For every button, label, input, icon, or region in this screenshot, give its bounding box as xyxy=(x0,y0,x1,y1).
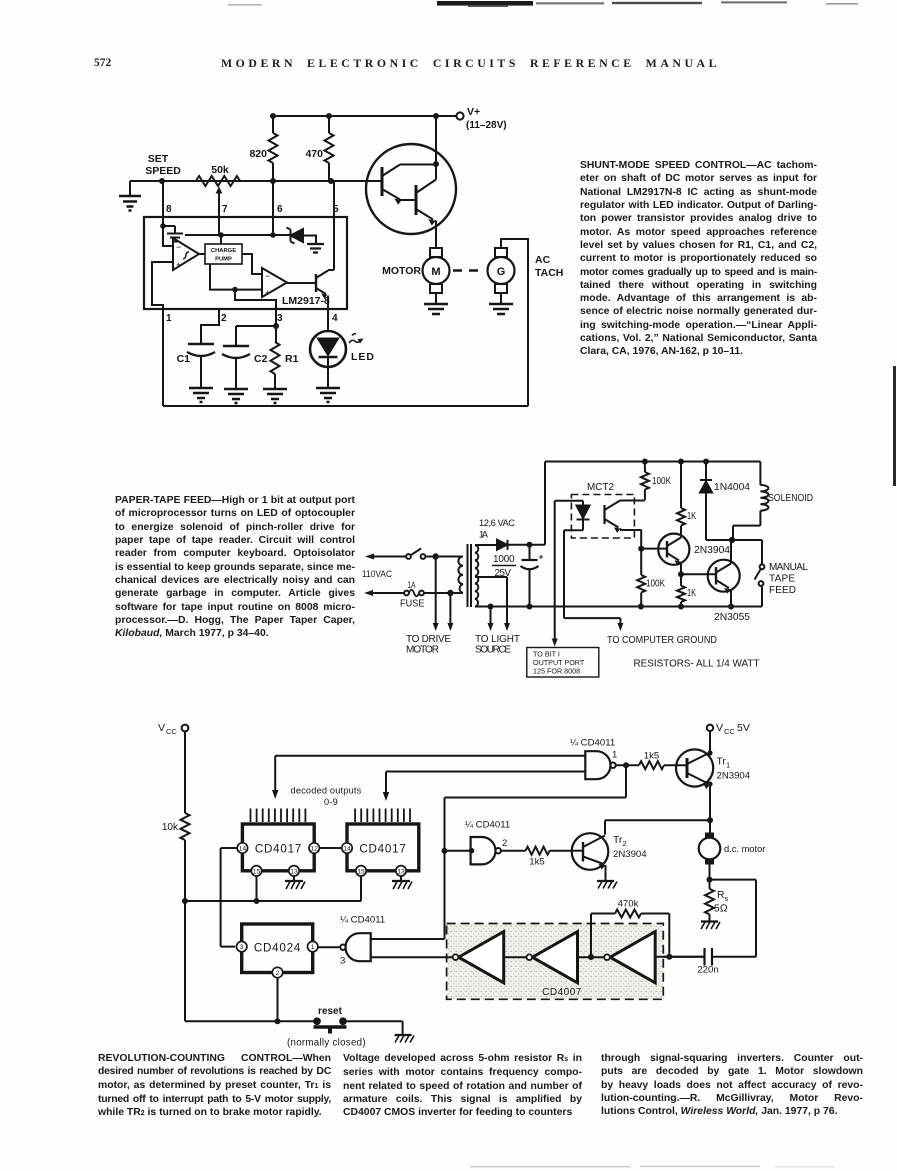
NAND gate 2 (1/4 CD4011) xyxy=(465,820,510,865)
capacitor 220n xyxy=(697,948,718,976)
wire gate1 output xyxy=(616,764,639,766)
svg-text:1A: 1A xyxy=(408,580,416,591)
wire decoded output line A xyxy=(272,756,585,799)
motor M xyxy=(423,248,450,304)
node dots reset bus xyxy=(182,898,260,904)
node dot collector xyxy=(433,161,439,167)
svg-text:s: s xyxy=(725,894,729,903)
svg-text:FEED: FEED xyxy=(769,585,796,596)
CD4007 dashed box with stipple xyxy=(447,924,664,1000)
svg-text:2N3904: 2N3904 xyxy=(717,771,751,782)
svg-text:3: 3 xyxy=(240,944,244,951)
node dot gate1 output xyxy=(623,762,629,768)
svg-text:AC: AC xyxy=(535,254,551,266)
LED indicator xyxy=(310,331,346,367)
svg-text:3: 3 xyxy=(340,956,345,967)
svg-text:50k: 50k xyxy=(211,164,229,176)
svg-text:¼ CD4011: ¼ CD4011 xyxy=(465,820,510,831)
svg-text:+: + xyxy=(176,260,181,270)
wire diode to supply corner xyxy=(508,462,761,545)
wire pin 8 xyxy=(162,181,164,226)
svg-text:13: 13 xyxy=(290,868,298,875)
ground (Tr2 emitter) xyxy=(597,881,617,889)
text block: caption column 2 xyxy=(343,1052,582,1120)
svg-text:1A: 1A xyxy=(479,530,489,540)
node dot flyback junction xyxy=(729,537,735,543)
inverter 1 xyxy=(453,932,504,983)
svg-text:SPEED: SPEED xyxy=(145,165,181,177)
transistor Tr1 2N3904 xyxy=(676,731,751,838)
svg-text:2N3904: 2N3904 xyxy=(694,545,730,556)
svg-text:100K: 100K xyxy=(652,476,671,487)
node dots bottom rail xyxy=(488,604,735,610)
svg-text:reset: reset xyxy=(318,1006,343,1017)
resistor R1 xyxy=(271,342,299,389)
node dot 1K top rail xyxy=(678,459,684,465)
pin 15 circle chip2 xyxy=(356,866,366,876)
resistor 100K upper xyxy=(641,462,671,501)
wire pin 5 to internal collector xyxy=(328,270,334,271)
counter CD4017 #2 xyxy=(347,809,419,871)
text block: SHUNT-MODE SPEED CONTROL caption xyxy=(580,159,817,359)
svg-text:10k: 10k xyxy=(162,822,179,833)
label TO BIT 1 OUTPUT PORT 125 FOR 8008 xyxy=(533,650,585,676)
Vcc 5V terminal right xyxy=(707,722,750,736)
svg-text:LED: LED xyxy=(351,351,375,363)
IC box LM2917-8 xyxy=(144,217,347,309)
transistor 2N3904 driver xyxy=(641,534,730,575)
wire op-amp1 output xyxy=(199,253,205,255)
wire main input rail xyxy=(130,180,366,182)
svg-text:1k5: 1k5 xyxy=(644,751,659,762)
node dot 470k input tap xyxy=(588,954,594,960)
svg-text:2: 2 xyxy=(623,839,627,848)
label TO COMPUTER GROUND xyxy=(607,635,717,646)
svg-text:PUMP: PUMP xyxy=(215,257,232,263)
wire inverter chain xyxy=(371,956,705,958)
page number 572 xyxy=(94,57,111,69)
wire tap to gate2 xyxy=(445,850,471,852)
d.c. motor xyxy=(699,833,766,880)
pin 15 circle chip1 xyxy=(251,866,261,876)
svg-text:TO COMPUTER GROUND: TO COMPUTER GROUND xyxy=(607,635,717,646)
svg-text:V+: V+ xyxy=(467,106,480,118)
svg-text:TO LIGHT: TO LIGHT xyxy=(475,634,520,645)
svg-text:V: V xyxy=(716,722,723,734)
svg-text:−: − xyxy=(265,271,270,281)
V+ terminal xyxy=(456,106,506,131)
op-amp U1a (input amp) xyxy=(173,238,199,270)
transistor 2N3055 xyxy=(681,540,750,623)
pin 14 circle chip1 xyxy=(237,843,247,853)
NAND gate 1 (1/4 CD4011) xyxy=(570,738,617,780)
ground (motor) xyxy=(424,304,448,314)
wire CD4024 pin2 to reset line xyxy=(277,978,279,1022)
ground (R1) xyxy=(263,389,287,403)
charge pump block xyxy=(205,244,242,264)
svg-text:220n: 220n xyxy=(697,965,718,976)
resistor 10k xyxy=(162,731,190,1021)
svg-text:¼ CD4011: ¼ CD4011 xyxy=(340,915,385,926)
svg-text:SOLENOID: SOLENOID xyxy=(768,493,813,504)
svg-text:12,6 VAC: 12,6 VAC xyxy=(479,518,515,528)
wire AC line top with arrow xyxy=(365,554,406,560)
capacitor C2 xyxy=(222,326,268,389)
wire feedback bottom line to pin 1 xyxy=(163,309,528,406)
pin 13 circle chip2 xyxy=(396,866,406,876)
pin 3 circle CD4024 xyxy=(237,941,247,951)
running head title xyxy=(221,56,720,71)
counter CD4017 #1 xyxy=(242,809,314,871)
svg-text:6: 6 xyxy=(277,204,283,215)
label AC TACH xyxy=(535,254,563,279)
wire gate3 output to CD4024 pin1 xyxy=(318,946,340,948)
svg-text:1N4004: 1N4004 xyxy=(714,482,750,493)
bottom edge scan smudge xyxy=(0,1163,897,1171)
resistor 100K lower xyxy=(637,575,665,607)
ground (chip1 pin13) xyxy=(285,876,305,889)
transformer T1 secondary xyxy=(475,545,478,607)
svg-text:14: 14 xyxy=(239,846,247,853)
text block: PAPER-TAPE FEED caption xyxy=(115,494,355,640)
wire internal bus xyxy=(185,235,316,244)
wire motor sense to 220n xyxy=(710,880,757,957)
wire LED anode to bit 1 port xyxy=(552,501,583,647)
svg-text:15: 15 xyxy=(253,868,261,875)
svg-text:14: 14 xyxy=(343,846,351,853)
svg-text:1K: 1K xyxy=(687,511,696,522)
transistor Tr2 2N3904 xyxy=(572,833,648,881)
svg-text:MOTOR: MOTOR xyxy=(382,265,421,277)
svg-text:SET: SET xyxy=(148,153,169,165)
svg-text:CHARGE: CHARGE xyxy=(211,248,236,254)
wire pin 7 (wiper to IC) xyxy=(218,196,220,235)
svg-text:CD4007: CD4007 xyxy=(542,987,582,998)
wire V+ to darlington collector xyxy=(435,116,437,164)
svg-text:FUSE: FUSE xyxy=(400,599,425,610)
AC tachometer generator G xyxy=(488,248,515,304)
op-amp U1b (comparator) xyxy=(262,268,287,298)
svg-text:M: M xyxy=(431,266,440,278)
svg-text:2: 2 xyxy=(221,313,227,324)
svg-text:470k: 470k xyxy=(618,899,639,910)
pin number labels 1 2 3 4 xyxy=(166,313,338,324)
svg-text:Tr: Tr xyxy=(717,757,727,768)
Darlington power transistor Q1 xyxy=(366,144,456,248)
svg-text:1: 1 xyxy=(612,750,617,761)
pin 12 circle chip1 xyxy=(309,843,319,853)
svg-text:CC: CC xyxy=(166,727,177,736)
wire charge pump to op-amp2 xyxy=(242,254,262,274)
svg-text:R: R xyxy=(717,890,724,901)
node dots supply rail xyxy=(642,459,709,465)
node dot base 2N3904 xyxy=(638,546,644,552)
opto LED xyxy=(577,501,590,531)
wire charge pump top pin xyxy=(220,235,222,244)
node dot gate2 input tap xyxy=(442,848,475,854)
label MANUAL TAPE FEED xyxy=(769,562,808,596)
pin 1 circle CD4024 xyxy=(308,941,318,951)
svg-text:CD4017: CD4017 xyxy=(359,843,406,856)
svg-text:(11–28V): (11–28V) xyxy=(466,120,507,131)
node dot inverter output xyxy=(666,954,672,960)
resistor 820 xyxy=(249,116,277,181)
ground (C1) xyxy=(189,388,213,402)
fuse 1A xyxy=(400,580,425,610)
wire gate1 output feedback to gates 2 and 3 xyxy=(371,765,626,939)
svg-text:MCT2: MCT2 xyxy=(587,482,614,493)
text block: caption column 3 xyxy=(601,1052,863,1119)
svg-text:125 FOR 8008: 125 FOR 8008 xyxy=(533,667,580,676)
resistor 1K upper xyxy=(677,462,696,538)
svg-text:100K: 100K xyxy=(646,579,665,590)
transformer T1 primary xyxy=(458,557,463,594)
wire tach to feedback loop xyxy=(501,239,528,406)
wire 220n to inverter output xyxy=(655,956,704,958)
node junction dots on V+ rail xyxy=(270,113,439,119)
wire op-amp inputs xyxy=(152,226,173,309)
wire to drive motor taps xyxy=(433,557,454,632)
NAND gate 3 (1/4 CD4011) xyxy=(340,915,385,967)
node dots on input rail xyxy=(159,178,334,184)
switch S1 (line) xyxy=(406,549,425,559)
transistor internal output NPN xyxy=(316,270,328,332)
label LED xyxy=(351,351,375,363)
fraction bar 1000/25V xyxy=(492,565,516,567)
svg-text:1000: 1000 xyxy=(493,554,515,565)
wire Tr2 collector to motor line xyxy=(605,820,710,834)
svg-text:8: 8 xyxy=(166,204,172,215)
filter capacitor 1000uF xyxy=(521,545,544,607)
label 110VAC xyxy=(362,569,392,579)
zener diode (internal) xyxy=(287,228,304,244)
svg-text:¼ CD4011: ¼ CD4011 xyxy=(570,738,615,749)
pin 13 circle chip1 xyxy=(289,866,299,876)
wire 100K to phototransistor emitter node xyxy=(640,549,642,575)
wire plus input to pin 3 xyxy=(235,290,276,309)
wire op-amp2 output to transistor base xyxy=(287,282,316,284)
svg-text:1K: 1K xyxy=(687,588,696,599)
svg-text:1k5: 1k5 xyxy=(529,857,544,868)
label RESISTORS- ALL 1/4 WATT xyxy=(634,659,760,670)
resistor Rs 5 ohm xyxy=(705,880,729,922)
label decoded outputs 0-9 xyxy=(291,786,362,808)
MCT2 optocoupler dashed box xyxy=(571,482,634,538)
wire pin 6 xyxy=(272,181,274,235)
svg-text:−: − xyxy=(176,242,181,252)
pin 14 circle chip2 xyxy=(342,843,352,853)
svg-text:470: 470 xyxy=(305,148,323,160)
resistor 470k feedback xyxy=(591,899,669,958)
svg-text:CC: CC xyxy=(724,727,735,736)
svg-text:1: 1 xyxy=(311,944,315,951)
wire reset bus xyxy=(185,876,361,901)
svg-text:SOURCE: SOURCE xyxy=(475,645,511,656)
label TO LIGHT SOURCE xyxy=(475,634,520,656)
wire pin 3 junction xyxy=(236,309,276,342)
resistor 1K lower xyxy=(677,574,696,606)
svg-text:820: 820 xyxy=(249,148,267,160)
node dot op-amp2 plus input xyxy=(232,287,238,293)
svg-text:1: 1 xyxy=(726,761,730,770)
shaft coupling dashes xyxy=(453,269,478,272)
svg-text:15: 15 xyxy=(357,868,365,875)
svg-text:d.c. motor: d.c. motor xyxy=(724,844,765,854)
node dot bottom AC xyxy=(447,590,453,596)
transformer T1 core xyxy=(468,544,472,607)
wire V+ supply rail xyxy=(273,115,456,117)
wire light source taps xyxy=(475,577,510,631)
ground (Rs) xyxy=(701,922,720,930)
wire AC line bottom with arrow xyxy=(364,590,404,596)
node dot motor bottom xyxy=(707,877,713,883)
potentiometer 50k xyxy=(196,164,240,196)
wire gate3 inputs xyxy=(371,939,445,957)
svg-text:C2: C2 xyxy=(254,353,268,365)
manual tape feed switch xyxy=(732,540,764,607)
node dot top AC xyxy=(433,553,439,559)
svg-text:2: 2 xyxy=(276,970,280,977)
wire chip1 pin14 to CD4024 pin3 xyxy=(221,848,238,947)
svg-text:5V: 5V xyxy=(737,722,750,734)
svg-text:13: 13 xyxy=(397,868,405,875)
opto phototransistor xyxy=(605,501,645,549)
LED emission arrows xyxy=(349,334,364,344)
wire gate2 output xyxy=(501,850,526,852)
svg-text:CD4024: CD4024 xyxy=(254,942,301,955)
svg-text:4: 4 xyxy=(332,313,338,324)
solenoid coil xyxy=(733,462,813,541)
svg-text:decoded outputs: decoded outputs xyxy=(291,786,362,796)
resistor 1k5 (Tr2 base) xyxy=(526,847,572,868)
svg-text:110VAC: 110VAC xyxy=(362,569,392,579)
node pin8 internal junction xyxy=(160,223,166,229)
svg-text:3: 3 xyxy=(277,313,283,324)
svg-text:R1: R1 xyxy=(285,353,299,365)
inverter 3 xyxy=(604,932,655,983)
svg-text:(normally closed): (normally closed) xyxy=(287,1038,366,1049)
node dot Tr1 emitter / Tr2 collector xyxy=(707,817,713,823)
resistor 1k5 (Tr1 base) xyxy=(639,751,687,770)
node dot pin2 reset xyxy=(275,1018,281,1024)
scan artifacts at top edge xyxy=(0,0,897,14)
label SET SPEED xyxy=(145,153,181,177)
ground (zener) xyxy=(307,244,324,253)
svg-text:MOTOR: MOTOR xyxy=(406,645,439,656)
wire secondary top xyxy=(475,544,497,546)
right edge scan artifact bar xyxy=(890,366,897,496)
ground (tach) xyxy=(489,304,513,314)
svg-text:TACH: TACH xyxy=(535,267,563,279)
ground (LED) xyxy=(316,367,340,403)
inverter 2 xyxy=(527,932,578,983)
node dot cap top xyxy=(527,542,533,548)
node dots internal bus xyxy=(218,232,276,238)
svg-text:V: V xyxy=(158,722,165,734)
label 1000/25V xyxy=(493,554,515,579)
svg-text:1: 1 xyxy=(166,313,172,324)
node dot 2N3055 base xyxy=(678,571,684,577)
wire pin 4 to LED xyxy=(327,309,329,332)
wire switch to transformer xyxy=(426,556,464,558)
svg-text:2N3904: 2N3904 xyxy=(613,849,647,860)
ground (C2) xyxy=(224,389,248,403)
TO BIT 1 OUTPUT PORT box xyxy=(527,648,599,678)
label TO DRIVE MOTOR xyxy=(406,634,451,656)
Vcc terminal left xyxy=(158,722,188,736)
reset switch (normally closed) xyxy=(287,1006,366,1049)
wire pin 5 xyxy=(333,181,335,270)
label 12.6 VAC 1A xyxy=(479,518,515,540)
capacitor C1 xyxy=(177,344,215,388)
node dot pin 3 xyxy=(273,323,279,329)
svg-text:RESISTORS- ALL 1/4 WATT: RESISTORS- ALL 1/4 WATT xyxy=(634,659,760,670)
svg-text:TAPE: TAPE xyxy=(769,574,795,585)
svg-text:Tr: Tr xyxy=(613,835,623,846)
svg-text:+: + xyxy=(539,552,544,562)
resistor 470 xyxy=(305,116,333,181)
pin 2 circle CD4024 xyxy=(272,967,282,977)
svg-text:0-9: 0-9 xyxy=(324,797,338,807)
wire pin 2 to C1 xyxy=(201,309,219,344)
ground (chip2 pin13) xyxy=(392,876,412,889)
rectifier diode xyxy=(497,540,508,550)
diode 1N4004 xyxy=(700,462,750,541)
label MOTOR xyxy=(382,265,421,277)
svg-text:LM2917-8: LM2917-8 xyxy=(282,295,330,307)
wire charge pump bottom pin xyxy=(210,264,235,290)
svg-text:2N3055: 2N3055 xyxy=(714,612,750,623)
wire secondary bottom rail xyxy=(475,606,762,608)
ground (reset) xyxy=(395,1035,414,1043)
pin number labels 8 7 6 5 xyxy=(166,204,339,215)
svg-text:TO DRIVE: TO DRIVE xyxy=(406,634,451,645)
text block: REVOLUTION-COUNTING caption column 1 xyxy=(98,1052,331,1121)
svg-text:C1: C1 xyxy=(177,353,191,365)
internal ground stub at pin 8 xyxy=(163,226,183,242)
counter CD4024 xyxy=(242,924,313,973)
svg-text:CD4017: CD4017 xyxy=(255,843,302,856)
wire decoded output line B xyxy=(383,772,586,802)
wire fuse to transformer xyxy=(424,592,463,594)
svg-text:7: 7 xyxy=(222,204,228,215)
svg-text:MANUAL: MANUAL xyxy=(769,562,808,573)
wire chip1 pin12 to chip2 pin14 xyxy=(319,847,341,849)
ground (left input) xyxy=(119,181,141,211)
svg-text:+: + xyxy=(265,288,270,298)
wire reset line xyxy=(185,1021,403,1035)
svg-text:G: G xyxy=(497,266,506,278)
svg-text:12: 12 xyxy=(310,846,318,853)
svg-text:2: 2 xyxy=(502,838,507,849)
wire LED cathode to computer ground xyxy=(564,530,623,631)
svg-text:5Ω: 5Ω xyxy=(714,904,728,915)
